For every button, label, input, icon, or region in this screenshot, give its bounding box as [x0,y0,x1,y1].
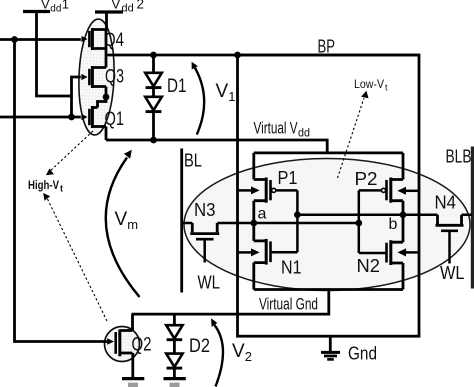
svg-text:t: t [60,183,63,193]
node: junction on Q1 gate wire [68,114,75,121]
svg-text:t: t [385,83,388,93]
svg-text:N3: N3 [194,199,216,220]
transistor Q3 (PMOS header) [81,66,106,88]
wire: Q3 drain to Q1 source chain [98,87,107,108]
wire: right inverter rail (P2/N2 sources and drains) [402,153,405,290]
svg-text:2: 2 [137,0,145,12]
node: D1 top junction [150,52,157,59]
wire: virtual gnd strap (cell box bottom) [254,288,403,291]
svg-text:Virtual V: Virtual V [254,120,298,138]
svg-text:Low-V: Low-V [354,77,384,91]
arrow V1 [195,68,204,135]
node: junction gate tie to a-wire [355,220,362,227]
wire: lower rail / virtual-vdd feed [106,140,327,153]
wire: Q1 drain down to lower rail [105,127,108,141]
transistor N3 (access, horizontal) [182,223,220,263]
node a junction [250,220,257,227]
svg-text:D1: D1 [167,76,187,97]
circle around Q2 [105,327,140,362]
svg-text:Virtual Gnd: Virtual Gnd [259,296,318,314]
svg-text:N4: N4 [435,192,457,213]
wire: virtual gnd feed down to Q2 rail [132,290,329,315]
wire: left horizontal to Q1 gate [0,116,81,119]
transistor N1 (NMOS, gate right) [254,239,298,265]
wire: body tap to N2 from box right edge [406,251,420,254]
svg-text:WL: WL [198,272,221,293]
svg-text:Q1: Q1 [105,109,125,130]
wire: BP top rail [106,54,419,57]
wire: left inverter rail (P1/N1 sources and drains) [252,153,255,290]
ellipse around 6T cell (Low-Vt group) [184,159,470,291]
svg-text:dd: dd [50,3,61,14]
transistor Q2 (NMOS footer) [107,314,133,377]
transistor N4 (access, horizontal) [403,215,472,264]
diode D1 (two in series) [145,55,162,140]
node: junction BP rail / box left edge [234,52,241,59]
dashed arrow: cell to Low-Vt label [338,98,365,178]
svg-text:dd: dd [122,2,134,14]
transistor P2 (PMOS, gate left with bubble) [359,178,403,203]
svg-text:N2: N2 [357,255,381,276]
svg-text:BLB: BLB [446,146,472,167]
node: junction on Q4 gate wire [11,36,18,43]
wire: virtual vdd strap (cell box top) [254,151,403,154]
svg-text:BL: BL [184,150,202,171]
svg-text:dd: dd [298,126,310,140]
outer body-bias box BP [238,55,420,336]
node b junction [400,211,407,218]
svg-text:V: V [41,0,50,12]
dashed arrow: ellipse to High-Vt label [49,131,93,172]
svg-text:BP: BP [318,37,336,57]
svg-text:Q3: Q3 [105,66,124,87]
arrow V2 [215,325,224,387]
svg-text:N1: N1 [281,257,302,278]
svg-text:Q2: Q2 [132,335,152,356]
wire: node-a cross wire [217,222,359,225]
wire: Vdd1 stem down then right [37,12,72,97]
svg-text:High-V: High-V [28,178,59,192]
ground under Q2 [122,379,144,385]
power Vdd1 supply bar [23,10,50,13]
arrow Vm [106,158,140,298]
ground symbol under box with Gnd label [321,336,340,359]
wire: P1/N1 gate tie vertical [296,190,299,252]
svg-text:P1: P1 [278,167,298,188]
wire: body tap to P1 from box left edge [238,189,252,192]
wire: BLB bit line [471,147,474,289]
wire: vertical from junction down and across to Q2 gate [15,40,108,342]
wire: vertical linking Q3 gate to Q1 gate wire [72,77,81,117]
ground under D2 [164,379,186,385]
svg-text:a: a [258,206,267,223]
wire: body tap to P2 from box right edge [406,190,420,193]
svg-text:V: V [112,0,121,12]
wire: P2/N2 gate tie vertical [358,190,361,253]
svg-text:P2: P2 [355,168,378,189]
wire: node-b cross wire [297,213,403,216]
svg-text:1: 1 [62,0,69,12]
power Vdd2 supply bar [95,10,123,13]
svg-text:b: b [389,216,398,233]
wire: BL bit line [180,149,183,293]
dashed arrow: Q2 to High-Vt label [46,196,107,321]
wire: Q4 drain to Q3 source chain [105,30,108,68]
svg-text:Vm: Vm [115,209,139,232]
svg-text:V1: V1 [216,81,236,104]
wire: Vdd2 stem to Q4 source [105,12,108,30]
transistor P1 (PMOS, gate right with bubble) [254,178,298,203]
wire: body tap to N1 from box left edge [238,251,252,254]
svg-text:V2: V2 [232,341,252,364]
transistor N2 (NMOS, gate left) [359,240,403,265]
node: junction gate tie to b-wire [294,211,301,218]
svg-text:D2: D2 [189,336,210,357]
ellipse around Q4/Q3/Q1 stack (High-Vt group) [77,18,116,135]
transistor Q4 (PMOS header) [81,28,106,50]
svg-text:Gnd: Gnd [348,344,377,364]
svg-text:WL: WL [440,262,465,283]
diode D2 (two in series) [166,314,182,377]
wire: top-left horizontal to Q4 gate [0,38,81,41]
node: D1 bottom junction [150,137,157,144]
node: junction between Q3 and Q1 [103,94,110,101]
transistor Q1 (PMOS header) [81,106,106,128]
